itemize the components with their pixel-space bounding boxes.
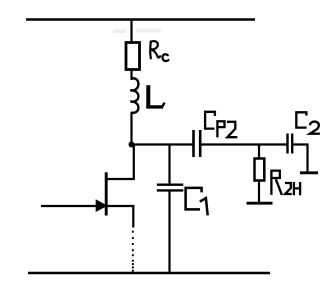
label R2H xyxy=(271,170,300,196)
wire CP2 to C2 xyxy=(201,143,286,145)
wire node to CP2 xyxy=(132,143,193,145)
wire C2 to terminal xyxy=(293,145,307,172)
terminal bar R2H xyxy=(247,202,273,205)
wire Rc to L xyxy=(130,70,132,81)
wire C1 to ground rail xyxy=(168,190,170,273)
wire L to node xyxy=(130,112,132,146)
inductor L xyxy=(130,78,138,113)
node collector junction xyxy=(129,142,135,148)
wire junction to R2H xyxy=(258,145,260,159)
label CP2 xyxy=(205,112,237,138)
capacitor C1 xyxy=(157,185,184,191)
power rail top xyxy=(26,18,255,21)
capacitor CP2 xyxy=(194,130,201,157)
faint watermark smudge xyxy=(113,29,161,34)
label C2 xyxy=(296,112,320,133)
wire R2H to terminal xyxy=(258,181,260,203)
label C1 xyxy=(186,188,208,216)
label Rc xyxy=(150,41,168,61)
capacitor C2 xyxy=(288,134,293,154)
terminal bar C2 xyxy=(300,171,318,174)
transistor collector lead xyxy=(107,145,134,180)
label L xyxy=(146,85,164,107)
transistor base lead wire xyxy=(41,205,97,207)
transistor emitter arrow xyxy=(96,199,108,212)
wire rail to Rc xyxy=(130,20,132,43)
wire node to C1 xyxy=(168,145,170,185)
transistor base bar xyxy=(105,172,108,215)
resistor R2H xyxy=(255,159,265,181)
dotted emitter wire to ground rail xyxy=(132,231,134,272)
resistor Rc xyxy=(126,43,140,70)
ground rail bottom xyxy=(28,272,270,275)
transistor emitter lead xyxy=(107,206,134,228)
